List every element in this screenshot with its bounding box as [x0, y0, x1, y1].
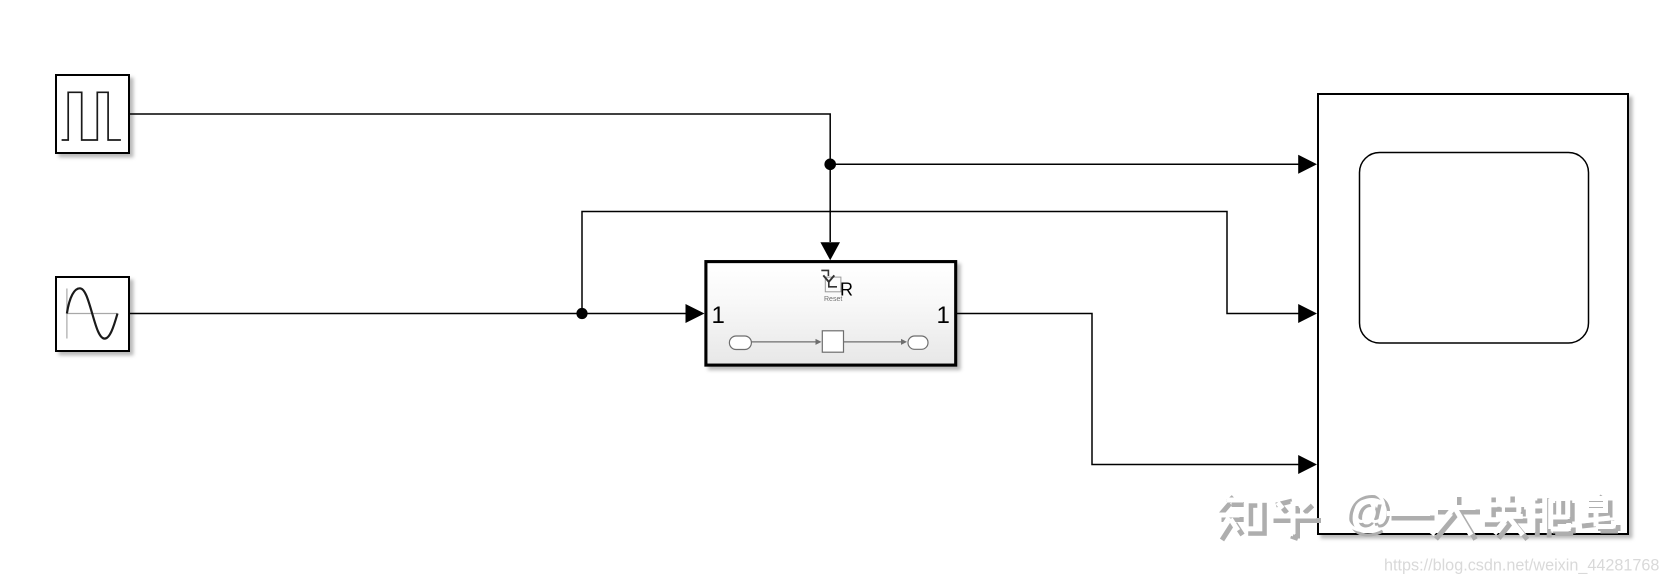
- svg-text:1: 1: [712, 302, 725, 329]
- svg-text:https://blog.csdn.net/weixin_4: https://blog.csdn.net/weixin_44281768: [1384, 557, 1659, 575]
- svg-text:Reset: Reset: [824, 296, 842, 303]
- svg-text:1: 1: [937, 302, 950, 329]
